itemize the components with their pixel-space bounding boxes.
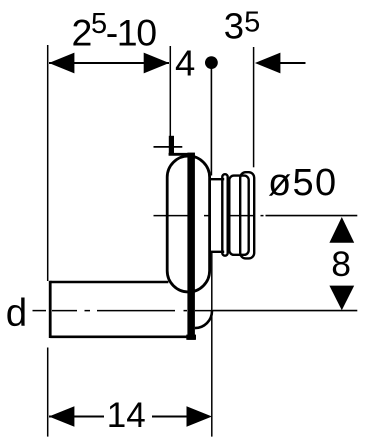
flange top cap line: [169, 153, 195, 156]
gasket bar foot: [186, 335, 196, 340]
arrowhead down of 8 dim: [329, 286, 354, 311]
dimension line 2.5-10 shaft: [49, 62, 169, 64]
outlet bulge quarter arc: [195, 311, 212, 328]
extension line right of 2.5-10 dim (x=170.3): [169, 46, 171, 139]
arrowhead right of 2.5-10: [144, 53, 170, 74]
dimension line 14 shaft right part: [152, 416, 187, 418]
arrowhead up of 8 dim: [329, 217, 354, 243]
reference line top for 8 dim: [266, 215, 358, 217]
spigot neck top edge: [211, 178, 224, 180]
inlet pipe end cap: [49, 281, 52, 338]
spigot collar ring: [222, 174, 227, 256]
gasket bar (filled): [187, 153, 195, 340]
svg-text:14: 14: [107, 396, 146, 435]
arrowhead left of 14 dim: [49, 406, 75, 427]
wall tick cross at flange top: [154, 146, 183, 148]
svg-text:4: 4: [175, 43, 195, 84]
extension line left (x=47.7 upper): [47, 45, 49, 281]
leader shaft of 3.5 dim: [280, 62, 306, 64]
stem from dot down to spigot (x=211.4): [210, 69, 212, 176]
extension line right lower (x=212): [211, 253, 213, 437]
dimension dot for 4: [205, 56, 218, 69]
extension line left lower (x=47.7, below pipe): [47, 348, 49, 437]
spigot end bead: [240, 172, 254, 258]
extension line of 3.5 dim (x=253.6): [253, 47, 255, 167]
svg-text:8: 8: [331, 244, 351, 284]
spigot neck bottom edge: [211, 251, 224, 253]
flange outline (stadium): [167, 156, 209, 292]
flange centerline (dash-dot): [154, 215, 264, 217]
pipe centerline tick left of pipe: [33, 310, 47, 312]
inlet pipe top edge: [50, 281, 168, 284]
arrowhead left of 2.5-10: [49, 53, 75, 74]
dimension line 14 shaft left part: [49, 416, 104, 418]
spigot cylinder body: [229, 176, 248, 255]
inlet pipe bottom edge: [50, 335, 196, 338]
reference line bottom for 8 dim: [213, 310, 357, 312]
pipe centerline (dash-dot): [52, 310, 213, 312]
stub above flange: [169, 136, 174, 155]
svg-text:d: d: [6, 292, 27, 335]
arrowhead right of 14 dim: [187, 406, 213, 427]
arrowhead of 3.5 dim: [255, 53, 281, 74]
svg-text:ø50: ø50: [268, 162, 337, 204]
svg-text:25-10: 25-10: [72, 8, 157, 54]
